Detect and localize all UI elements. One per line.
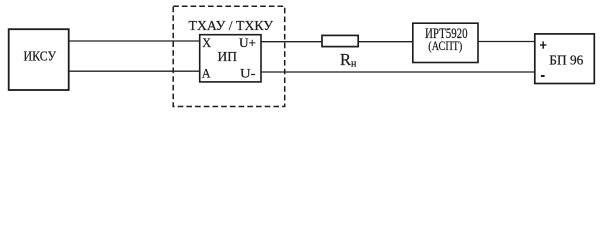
dashed box ТХАУ/ТХКУ xyxy=(173,6,285,106)
svg-text:ИП: ИП xyxy=(218,49,238,64)
wire ИП U- to БП96 bottom xyxy=(261,71,535,73)
block ИРТ5920 (АСПТ) xyxy=(413,23,478,62)
wire resistor to ИРТ5920 xyxy=(358,41,413,43)
svg-text:R: R xyxy=(340,50,351,69)
svg-text:U-: U- xyxy=(240,67,256,81)
wire ИРТ5920 to БП96 xyxy=(478,41,535,43)
svg-text:ИКСУ: ИКСУ xyxy=(24,49,57,64)
resistor Rн xyxy=(322,35,358,69)
block ИП (inner transmitter box) xyxy=(200,35,261,82)
svg-text:н: н xyxy=(351,59,357,70)
svg-text:(АСПТ): (АСПТ) xyxy=(428,38,462,53)
svg-text:ТХАУ / ТХКУ: ТХАУ / ТХКУ xyxy=(189,18,274,33)
block ИКСУ xyxy=(9,29,69,90)
block БП 96 xyxy=(535,34,595,84)
minus terminal xyxy=(541,75,545,77)
wire ИКСУ to ИП bottom xyxy=(69,70,200,72)
svg-text:U+: U+ xyxy=(239,36,256,50)
plus terminal xyxy=(540,44,546,46)
svg-text:БП 96: БП 96 xyxy=(549,54,583,69)
svg-text:Х: Х xyxy=(202,36,211,50)
wire ИП U+ to resistor xyxy=(261,41,322,43)
wire ИКСУ to ИП top xyxy=(69,40,200,42)
svg-text:А: А xyxy=(202,67,211,81)
